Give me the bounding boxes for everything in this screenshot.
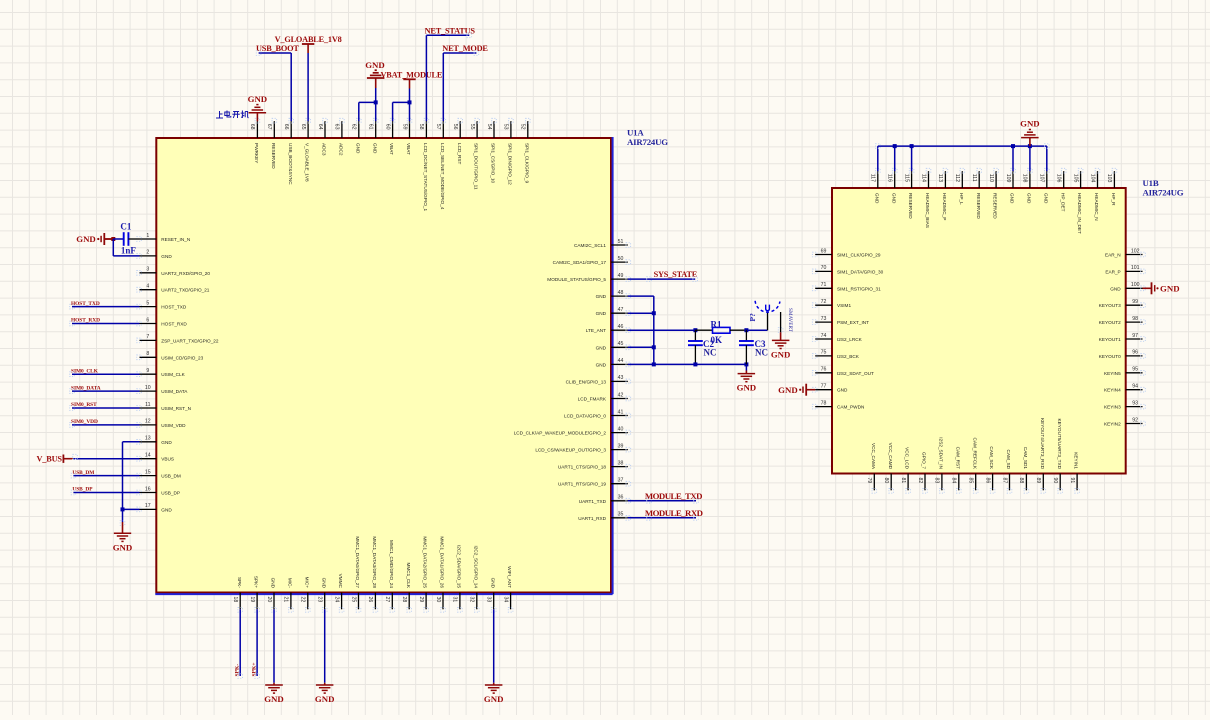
svg-text:MMC1_DATA1/GPIO_26: MMC1_DATA1/GPIO_26 [440,536,445,588]
svg-text:AIR724UG: AIR724UG [1143,188,1184,198]
svg-text:SPK-: SPK- [234,664,240,677]
svg-text:44: 44 [618,358,624,364]
svg-text:87: 87 [1001,478,1007,484]
svg-text:18: 18 [232,597,238,603]
svg-text:VMMC: VMMC [338,574,343,589]
svg-text:RESERVED: RESERVED [908,193,913,219]
svg-text:GND: GND [891,193,896,204]
svg-text:1nF: 1nF [121,246,137,256]
svg-text:CAM_PWDN: CAM_PWDN [837,405,864,410]
svg-text:60: 60 [384,124,390,130]
svg-text:I2S2_BCK: I2S2_BCK [837,354,860,359]
svg-text:GND: GND [596,345,607,350]
svg-text:USIM_VDD: USIM_VDD [161,423,186,428]
svg-text:72: 72 [821,299,827,305]
svg-text:MMC1_DATA3/GPIO_28: MMC1_DATA3/GPIO_28 [372,536,377,588]
svg-text:VCC_CAMA: VCC_CAMA [871,443,876,470]
svg-text:111: 111 [971,174,977,182]
svg-text:ZSP_UART_TXD/GPIO_22: ZSP_UART_TXD/GPIO_22 [161,338,219,343]
svg-text:I2C2_SCL/GPIO_14: I2C2_SCL/GPIO_14 [473,546,478,589]
svg-text:GND: GND [248,94,268,104]
svg-text:CAM_SD: CAM_SD [1006,449,1011,469]
svg-text:LCD_DC/NET_STATUS/GPIO_1: LCD_DC/NET_STATUS/GPIO_1 [423,143,428,211]
svg-text:EAR_P: EAR_P [1105,269,1120,274]
svg-text:VCC_CAMD: VCC_CAMD [888,443,893,470]
svg-text:49: 49 [618,273,624,279]
svg-text:GND: GND [315,694,335,704]
svg-text:SPI1_DOUT/GPIO_11: SPI1_DOUT/GPIO_11 [474,143,479,190]
svg-text:V_BUS: V_BUS [37,454,63,463]
svg-text:GPIO_7: GPIO_7 [922,452,927,469]
svg-text:CAM_SCK: CAM_SCK [989,446,994,470]
svg-text:NC: NC [704,348,717,358]
svg-text:29: 29 [418,597,424,603]
svg-text:GND: GND [161,507,172,512]
svg-text:93: 93 [1132,400,1138,406]
svg-text:HEADMIC_IN_DET: HEADMIC_IN_DET [1077,193,1082,234]
svg-text:V_GLOABLE_1V8: V_GLOABLE_1V8 [305,143,310,182]
svg-text:USB_DM: USB_DM [161,474,181,479]
svg-text:20: 20 [266,597,272,603]
svg-text:MODULE_STATUS/GPIO_5: MODULE_STATUS/GPIO_5 [547,277,606,282]
svg-text:9: 9 [146,368,149,374]
svg-text:GND: GND [161,440,172,445]
svg-text:50: 50 [618,256,624,262]
svg-text:107: 107 [1039,174,1045,183]
svg-text:VCC_LCD: VCC_LCD [905,447,910,469]
svg-text:I2S2_SDAT_IN: I2S2_SDAT_IN [939,437,944,469]
svg-text:NET_STATUS: NET_STATUS [425,26,476,35]
svg-text:101: 101 [1131,265,1140,271]
svg-text:11: 11 [145,402,150,408]
svg-text:UART1_RTS/GPIO_19: UART1_RTS/GPIO_19 [558,482,606,487]
svg-text:99: 99 [1132,299,1138,305]
svg-text:70: 70 [821,265,827,271]
svg-text:61: 61 [368,124,374,130]
svg-text:109: 109 [1005,174,1011,183]
svg-text:88: 88 [1018,478,1024,484]
svg-text:48: 48 [618,290,624,296]
svg-text:HEADMIC_BIAS: HEADMIC_BIAS [925,193,930,228]
svg-text:79: 79 [866,478,872,484]
svg-text:LTE_ANT: LTE_ANT [586,328,606,333]
svg-text:103: 103 [1106,174,1112,183]
svg-text:37: 37 [618,478,624,484]
svg-text:12: 12 [145,419,151,425]
svg-text:1: 1 [146,233,149,239]
svg-text:68: 68 [249,124,255,130]
svg-text:I2C2_SDA/GPIO_15: I2C2_SDA/GPIO_15 [457,545,462,588]
svg-text:77: 77 [821,384,827,390]
svg-text:KEYOUT5/UART3_TXD: KEYOUT5/UART3_TXD [1057,419,1062,470]
svg-text:39: 39 [618,443,624,449]
svg-text:U1B: U1B [1143,178,1159,188]
svg-text:94: 94 [1132,384,1138,390]
svg-text:98: 98 [1132,316,1138,322]
svg-text:47: 47 [618,307,624,313]
svg-text:SIM0_VDD: SIM0_VDD [71,419,98,425]
svg-text:86: 86 [984,478,990,484]
svg-text:KEYOUT3: KEYOUT3 [1099,303,1121,308]
svg-text:52: 52 [520,124,526,130]
svg-text:3: 3 [146,267,149,273]
svg-text:62: 62 [351,124,357,130]
svg-text:USB_DP: USB_DP [161,491,180,496]
svg-text:38: 38 [618,460,624,466]
svg-text:112: 112 [954,174,960,182]
svg-text:R1: R1 [711,319,722,329]
svg-text:64: 64 [317,124,323,130]
svg-text:AIR724UG: AIR724UG [627,137,668,147]
svg-text:GND: GND [1043,193,1048,204]
svg-text:GND: GND [596,294,607,299]
svg-text:LCD_CLK/AP_WAKEUP_MODULE/GPIO_: LCD_CLK/AP_WAKEUP_MODULE/GPIO_2 [514,431,607,436]
svg-text:78: 78 [821,400,827,406]
svg-text:I2S2_LRCK: I2S2_LRCK [837,337,863,342]
svg-text:MODULE_RXD: MODULE_RXD [645,508,703,518]
svg-text:41: 41 [618,409,624,415]
svg-text:LCD_SEL/NET_MODE/GPIO_4: LCD_SEL/NET_MODE/GPIO_4 [440,143,445,210]
svg-text:USB_BOOT&SYNC: USB_BOOT&SYNC [288,143,293,185]
svg-text:V_GLOABLE_1V8: V_GLOABLE_1V8 [275,35,342,44]
svg-text:UART1_CTS/GPIO_18: UART1_CTS/GPIO_18 [558,465,607,470]
svg-text:HOST_RXD: HOST_RXD [71,318,100,324]
svg-text:CAM_SD1: CAM_SD1 [1023,447,1028,470]
svg-text:CAM_REFCLK: CAM_REFCLK [972,437,977,469]
svg-text:KEYOUT1: KEYOUT1 [1099,337,1121,342]
svg-text:HP_R: HP_R [1111,193,1116,206]
svg-text:113: 113 [937,174,943,182]
svg-text:69: 69 [821,248,827,254]
svg-text:RESERVED: RESERVED [993,193,998,219]
svg-text:85: 85 [968,478,974,484]
svg-text:GND: GND [771,349,791,359]
svg-text:75: 75 [821,350,827,356]
svg-text:53: 53 [503,124,509,130]
svg-text:UART1_RXD: UART1_RXD [578,516,606,521]
svg-text:57: 57 [435,124,441,130]
svg-text:MMC1_DATA0/GPIO_27: MMC1_DATA0/GPIO_27 [355,536,360,588]
svg-text:KEYIN3: KEYIN3 [1104,405,1121,410]
svg-text:KEYIN2: KEYIN2 [1104,422,1121,427]
svg-text:VBAT_MODULE: VBAT_MODULE [381,70,443,79]
svg-text:KEYIN4: KEYIN4 [1104,388,1121,393]
svg-text:80: 80 [883,478,889,484]
svg-text:SIM0_RST: SIM0_RST [71,402,97,408]
svg-text:SIM1_DATA/GPIO_30: SIM1_DATA/GPIO_30 [837,269,884,274]
svg-text:GND: GND [372,143,377,154]
svg-text:SPK+: SPK+ [251,662,257,676]
svg-text:GND: GND [355,143,360,154]
svg-text:5: 5 [146,300,149,306]
svg-text:SMAVERT: SMAVERT [787,308,793,333]
svg-text:GND: GND [113,542,133,552]
svg-text:LCD_CS/WAKEUP_OUT/GPIO_3: LCD_CS/WAKEUP_OUT/GPIO_3 [535,448,606,453]
svg-text:67: 67 [266,124,272,130]
svg-text:SPK+: SPK+ [254,576,259,588]
svg-text:6: 6 [146,317,149,323]
svg-text:HOST_TXD: HOST_TXD [71,301,100,307]
svg-text:21: 21 [283,597,289,603]
svg-text:GND: GND [365,60,385,70]
svg-text:GND: GND [264,694,284,704]
svg-text:13: 13 [145,436,151,442]
svg-text:90: 90 [1052,478,1058,484]
svg-text:HEADMIC_N: HEADMIC_N [1094,193,1099,221]
svg-text:GND: GND [1020,119,1040,129]
svg-text:GND: GND [1110,286,1121,291]
svg-text:66: 66 [283,124,289,130]
svg-text:82: 82 [917,478,923,484]
svg-text:23: 23 [317,597,323,603]
svg-text:RESERVED: RESERVED [271,143,276,169]
svg-text:108: 108 [1022,174,1028,183]
svg-text:HEADMIC_P: HEADMIC_P [942,193,947,220]
svg-text:22: 22 [300,597,306,603]
svg-text:91: 91 [1069,478,1075,484]
svg-text:ADC3: ADC3 [322,143,327,156]
svg-text:KEYOUT4/UART3_RXD: KEYOUT4/UART3_RXD [1040,418,1045,470]
svg-text:114: 114 [920,174,926,182]
svg-text:GND: GND [321,578,326,589]
svg-text:GND: GND [1160,284,1180,294]
svg-text:102: 102 [1131,248,1140,254]
svg-text:CAM_RST: CAM_RST [955,447,960,470]
svg-text:58: 58 [418,124,424,130]
svg-text:SIM1_CLK/GPIO_29: SIM1_CLK/GPIO_29 [837,253,881,258]
svg-text:59: 59 [401,124,407,130]
svg-text:105: 105 [1072,174,1078,183]
svg-text:I2S2_SDAT_OUT: I2S2_SDAT_OUT [837,371,874,376]
svg-text:71: 71 [821,282,827,288]
svg-text:USIM_RST_N: USIM_RST_N [161,406,191,411]
svg-text:GND: GND [1027,193,1032,204]
svg-text:GND: GND [596,362,607,367]
svg-text:56: 56 [452,124,458,130]
svg-text:C1: C1 [120,222,131,232]
svg-text:SYS_STATE: SYS_STATE [654,270,698,279]
svg-text:VBAT: VBAT [406,143,411,155]
svg-text:MMC1_DATA2/GPIO_25: MMC1_DATA2/GPIO_25 [423,536,428,588]
svg-text:2: 2 [146,250,149,256]
svg-text:46: 46 [618,324,624,330]
svg-text:84: 84 [951,478,957,484]
svg-text:32: 32 [469,597,475,603]
svg-text:25: 25 [350,597,356,603]
svg-text:PSM_EXT_INT: PSM_EXT_INT [837,320,869,325]
svg-text:97: 97 [1132,333,1138,339]
svg-text:MODULE_TXD: MODULE_TXD [645,491,702,501]
svg-text:MIC+: MIC+ [304,577,309,589]
svg-text:GND: GND [490,578,495,589]
svg-text:92: 92 [1132,417,1138,423]
svg-text:GND: GND [778,385,798,395]
svg-text:31: 31 [452,597,458,603]
svg-text:HP_DET: HP_DET [1060,193,1065,212]
svg-text:54: 54 [486,124,492,130]
svg-text:LCD_RST: LCD_RST [457,143,462,164]
svg-text:100: 100 [1131,282,1140,288]
svg-text:KEYIN1: KEYIN1 [1074,452,1079,469]
svg-text:GND: GND [737,383,757,393]
svg-text:15: 15 [145,469,151,475]
svg-text:43: 43 [618,375,624,381]
svg-text:35: 35 [618,512,624,518]
svg-text:7: 7 [146,334,149,340]
svg-text:VSIM1: VSIM1 [837,303,851,308]
svg-text:24: 24 [333,597,339,603]
svg-text:GND: GND [874,193,879,204]
svg-text:PWRKEY: PWRKEY [254,143,259,164]
svg-text:GND: GND [484,694,504,704]
svg-text:HOST_RXD: HOST_RXD [161,322,187,327]
svg-text:65: 65 [300,124,306,130]
svg-text:16: 16 [145,486,151,492]
svg-text:MIC-: MIC- [288,578,293,589]
svg-text:RESERVED: RESERVED [976,193,981,219]
svg-text:89: 89 [1035,478,1041,484]
svg-text:GND: GND [1010,193,1015,204]
svg-text:74: 74 [821,333,827,339]
svg-text:UART2_TXD/GPIO_21: UART2_TXD/GPIO_21 [161,288,210,293]
svg-text:KEYIN5: KEYIN5 [1104,371,1121,376]
svg-text:NET_MODE: NET_MODE [442,44,488,53]
svg-text:117: 117 [870,174,876,182]
svg-text:GND: GND [76,234,96,244]
svg-text:GND: GND [837,388,848,393]
svg-text:110: 110 [988,174,994,182]
svg-text:14: 14 [145,453,151,459]
svg-text:28: 28 [401,597,407,603]
svg-text:VBAT: VBAT [389,143,394,155]
svg-text:CAMI2C_SDA1/GPIO_17: CAMI2C_SDA1/GPIO_17 [553,260,607,265]
svg-text:73: 73 [821,316,827,322]
svg-text:ADC2: ADC2 [339,143,344,156]
svg-text:17: 17 [145,503,151,509]
svg-text:19: 19 [249,597,255,603]
svg-text:GND: GND [161,254,172,259]
svg-text:115: 115 [903,174,909,182]
svg-text:UART1_TXD: UART1_TXD [579,499,607,504]
svg-text:SPI1_DIN/GPIO_12: SPI1_DIN/GPIO_12 [508,143,513,185]
svg-text:30: 30 [435,597,441,603]
svg-text:26: 26 [367,597,373,603]
svg-text:106: 106 [1056,174,1062,183]
svg-text:95: 95 [1132,367,1138,373]
svg-text:8: 8 [146,351,149,357]
svg-text:LCD_DATA/GPIO_0: LCD_DATA/GPIO_0 [564,414,606,419]
svg-text:KEYOUT0: KEYOUT0 [1099,354,1121,359]
svg-text:WIFI_ANT: WIFI_ANT [507,566,512,588]
svg-text:VBUS: VBUS [161,457,174,462]
svg-text:42: 42 [618,392,624,398]
svg-text:USIM_CLK: USIM_CLK [161,372,185,377]
svg-text:RESET_IN_N: RESET_IN_N [161,237,190,242]
svg-text:HOST_TXD: HOST_TXD [161,305,187,310]
svg-text:SPI1_CLK/GPIO_9: SPI1_CLK/GPIO_9 [524,143,529,184]
svg-text:MMC1_CLK: MMC1_CLK [406,562,411,588]
svg-text:UART2_RXD/GPIO_20: UART2_RXD/GPIO_20 [161,271,210,276]
svg-text:USIM_CD/GPIO_23: USIM_CD/GPIO_23 [161,355,203,360]
svg-text:SIM1_RST/GPIO_31: SIM1_RST/GPIO_31 [837,286,881,291]
svg-text:63: 63 [334,124,340,130]
svg-text:NC: NC [755,348,768,358]
svg-text:CAMI2C_SCL1: CAMI2C_SCL1 [574,243,606,248]
svg-text:104: 104 [1089,174,1095,183]
svg-text:MMC1_CMD/GPIO_24: MMC1_CMD/GPIO_24 [389,540,394,588]
svg-text:SPK-: SPK- [237,577,242,588]
svg-text:96: 96 [1132,350,1138,356]
svg-text:116: 116 [887,174,893,182]
svg-text:45: 45 [618,341,624,347]
svg-text:36: 36 [618,495,624,501]
svg-text:USIM_DATA: USIM_DATA [161,389,188,394]
svg-text:27: 27 [384,597,390,603]
svg-text:55: 55 [469,124,475,130]
svg-text:4: 4 [146,284,149,290]
svg-text:SPI1_CS/GPIO_10: SPI1_CS/GPIO_10 [491,143,496,184]
svg-text:83: 83 [934,478,940,484]
svg-text:LCD_FMARK: LCD_FMARK [578,397,607,402]
svg-text:SIM0_CLK: SIM0_CLK [71,368,99,374]
svg-text:SIM0_DATA: SIM0_DATA [71,385,101,391]
svg-text:U1A: U1A [627,127,644,137]
svg-text:EAR_N: EAR_N [1105,253,1121,258]
svg-text:GND: GND [596,311,607,316]
svg-text:USB_BOOT: USB_BOOT [256,44,299,53]
svg-text:KEYOUT2: KEYOUT2 [1099,320,1121,325]
svg-text:34: 34 [502,597,508,603]
svg-text:51: 51 [618,239,624,245]
svg-text:33: 33 [486,597,492,603]
svg-text:GND: GND [271,578,276,589]
svg-text:10: 10 [145,385,151,391]
svg-text:P?: P? [748,313,757,322]
svg-text:40: 40 [618,426,624,432]
svg-text:81: 81 [900,478,906,484]
svg-text:CLIB_EN/GPIO_13: CLIB_EN/GPIO_13 [566,379,607,384]
svg-text:HP_L: HP_L [959,193,964,205]
svg-text:76: 76 [821,367,827,373]
